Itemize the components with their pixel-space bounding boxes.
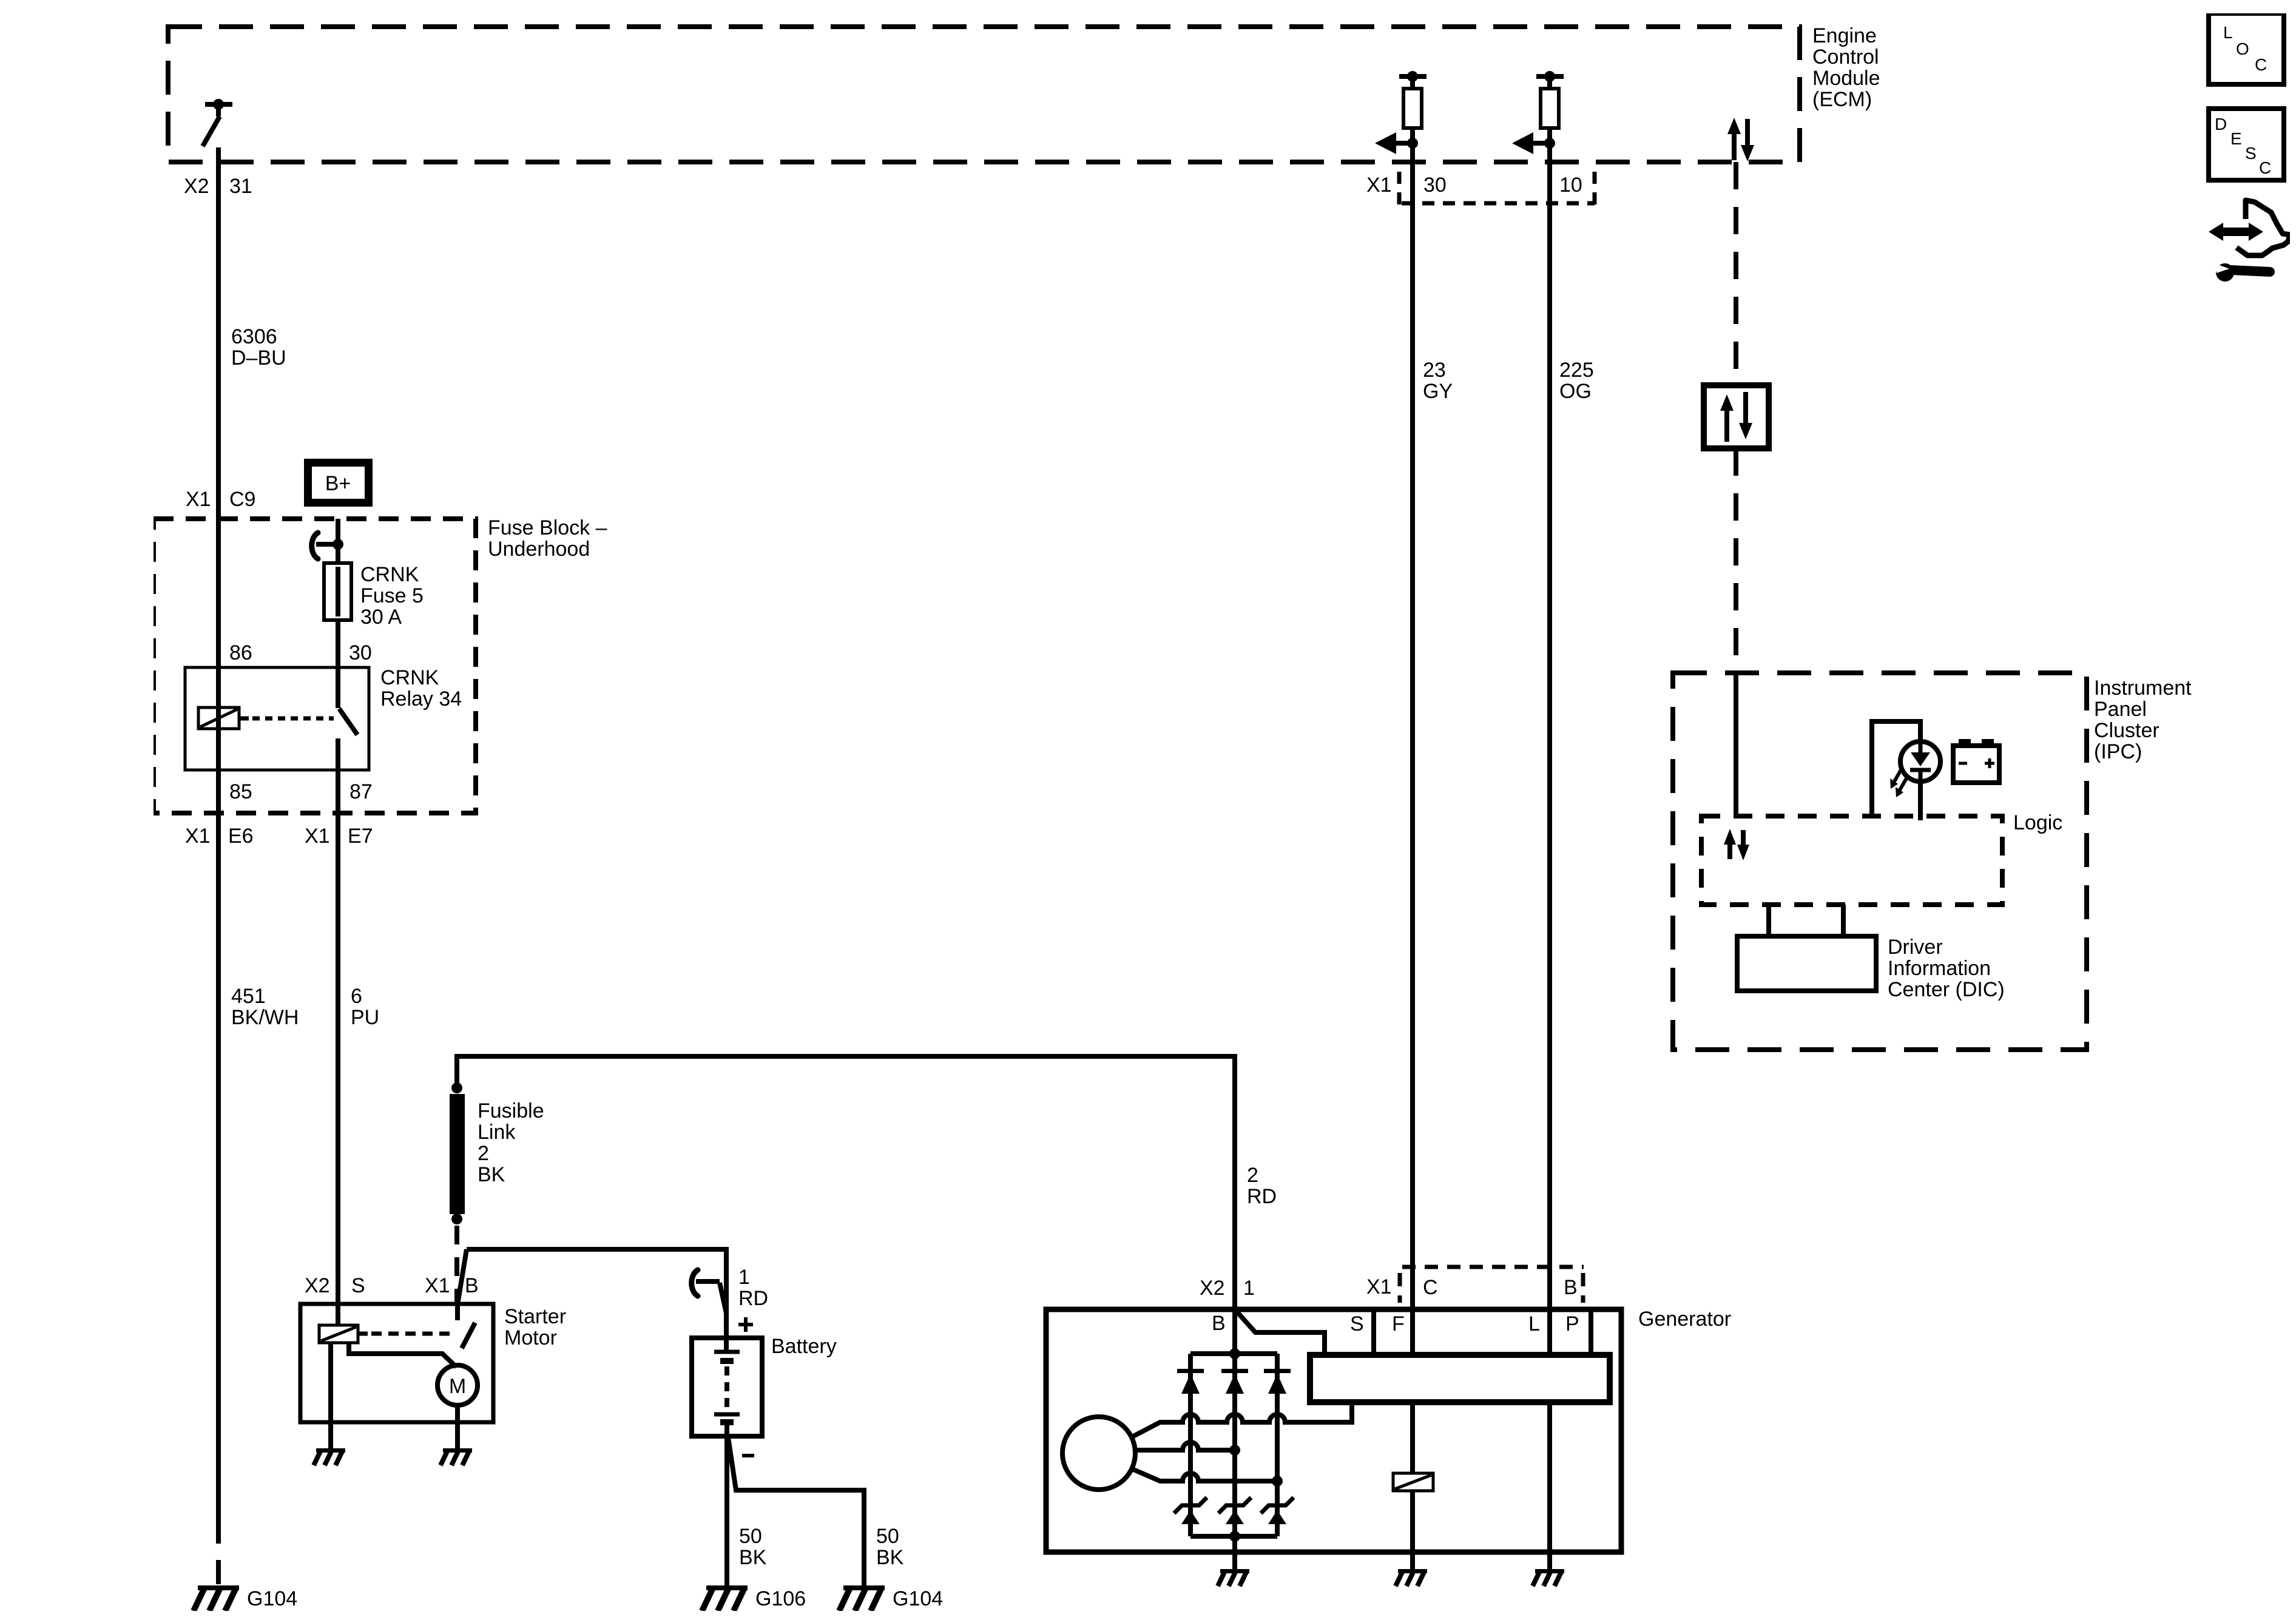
svg-text:S: S: [351, 1274, 365, 1297]
wire 6306 D-BU / 451 BK/WH (ECM X2-31 to G104): [216, 147, 221, 1518]
Starter Motor label: [504, 1305, 566, 1349]
Engine Control Module box: [168, 27, 1800, 162]
relay switch blade: [339, 709, 357, 735]
ECM X1 connector dashed box (pins 30 and 10): [1399, 172, 1595, 204]
svg-text:S: S: [2245, 144, 2257, 163]
svg-text:1: 1: [738, 1266, 750, 1289]
serial data two-way box: [1704, 385, 1769, 448]
svg-text:X1: X1: [305, 825, 330, 848]
svg-text:B: B: [465, 1274, 479, 1297]
upper diode 3: [1264, 1369, 1291, 1394]
diode column 1: [1188, 1354, 1193, 1536]
generator X1 connector dashed box: [1400, 1267, 1584, 1303]
diode column 3: [1275, 1354, 1280, 1536]
svg-text:G106: G106: [755, 1587, 806, 1610]
svg-text:RD: RD: [738, 1287, 768, 1310]
starter coil ground wire: [328, 1343, 333, 1448]
generator P pin stub: [1589, 1309, 1593, 1355]
svg-text:Fusible: Fusible: [478, 1099, 544, 1122]
IPC label: [2094, 677, 2192, 763]
svg-text:30: 30: [1423, 174, 1447, 197]
svg-text:D–BU: D–BU: [231, 346, 286, 370]
svg-text:E: E: [2230, 129, 2242, 148]
label 50 BK left: [739, 1525, 767, 1569]
svg-text:B: B: [1212, 1312, 1226, 1335]
LOC reference box: [2209, 13, 2284, 84]
svg-text:E6: E6: [228, 825, 254, 848]
wire 23 GY (pin 30 to generator C): [1410, 128, 1415, 1355]
generator pin labels X2 1: [1200, 1277, 1255, 1300]
ECM pin labels X1 30 10: [1366, 174, 1582, 197]
lower avalanche diode 2: [1218, 1497, 1251, 1524]
pin labels X1 E7: [305, 825, 373, 848]
svg-text:2: 2: [1247, 1164, 1258, 1187]
fusible link label: [478, 1099, 544, 1186]
rectifier bottom rail: [1190, 1534, 1277, 1539]
starter solenoid coil: [319, 1325, 358, 1343]
svg-text:Engine: Engine: [1812, 24, 1877, 47]
svg-text:Link: Link: [478, 1121, 516, 1144]
junction dot bottom rail: [1229, 1531, 1240, 1542]
svg-text:2: 2: [478, 1142, 489, 1165]
Driver Information Center box: [1737, 936, 1876, 991]
relay lower contact wire to pin 87: [336, 738, 340, 813]
svg-text:CRNK: CRNK: [360, 563, 419, 586]
starter switch blade: [462, 1323, 475, 1348]
upper diode 1: [1177, 1369, 1204, 1394]
svg-text:Module: Module: [1812, 67, 1880, 90]
svg-text:X1: X1: [186, 488, 211, 511]
charge indicator LED: [1872, 721, 1940, 820]
generator connector labels X1 C B: [1366, 1275, 1578, 1299]
svg-text:Panel: Panel: [2094, 698, 2147, 721]
svg-text:50: 50: [739, 1525, 762, 1548]
svg-text:M: M: [449, 1375, 466, 1398]
upper diode 2: [1221, 1369, 1248, 1394]
ECM serial data arrows: [1727, 118, 1754, 161]
svg-text:P: P: [1565, 1312, 1579, 1335]
svg-text:X1: X1: [1366, 174, 1392, 197]
svg-text:Logic: Logic: [2013, 811, 2062, 834]
ECM driver pin 10 (resistor + arrow): [1512, 71, 1564, 154]
battery internal cell symbol: [714, 1338, 740, 1436]
generator S pin stub: [1371, 1309, 1376, 1355]
ECM internal switch (crank request output): [203, 99, 232, 146]
svg-text:OG: OG: [1559, 380, 1592, 403]
svg-text:X2: X2: [305, 1274, 330, 1297]
rotor winding circle: [1062, 1417, 1135, 1490]
svg-text:6306: 6306: [231, 325, 277, 348]
svg-text:50: 50: [876, 1525, 899, 1548]
svg-text:1: 1: [1243, 1277, 1255, 1300]
IPC battery telltale icon: [1953, 739, 1999, 783]
ground below field coil: [1396, 1569, 1427, 1586]
battery negative branch to G104: [728, 1437, 864, 1585]
ground G104 left: [194, 1585, 239, 1611]
CRNK Fuse 5: [324, 563, 351, 620]
svg-text:C: C: [2255, 55, 2267, 74]
wire 2 RD continuation into rectifier: [1232, 1309, 1237, 1354]
svg-text:S: S: [1350, 1312, 1364, 1335]
starter contact wire to motor: [349, 1343, 456, 1367]
fusible link 2 BK: [450, 1082, 465, 1224]
starter B pin wire: [455, 1302, 460, 1320]
Fuse Block Underhood dashed box: [154, 519, 476, 813]
svg-text:225: 225: [1559, 359, 1594, 382]
B+ terminal box: [308, 463, 369, 503]
ground G104 right: [839, 1585, 885, 1611]
label 451 BK/WH: [231, 985, 299, 1029]
label 23 GY: [1423, 359, 1453, 403]
svg-text:Center (DIC): Center (DIC): [1888, 978, 2005, 1001]
label 1 RD: [738, 1266, 768, 1310]
stator phase 3 winding: [1132, 1469, 1277, 1481]
dashed wire fusible link to starter B: [454, 1226, 459, 1302]
svg-text:86: 86: [229, 641, 252, 664]
svg-text:Generator: Generator: [1638, 1308, 1731, 1331]
wire fuse to relay pin 30: [336, 620, 340, 708]
serial data wire inside IPC: [1734, 673, 1738, 816]
ground below starter coil: [314, 1448, 345, 1465]
starter S wire into solenoid coil: [336, 1304, 340, 1325]
svg-text:Information: Information: [1888, 957, 1991, 980]
dashed wire segment to ground: [216, 1518, 221, 1584]
Logic dashed box: [1701, 816, 2002, 905]
starter motor M: [437, 1365, 478, 1405]
relay actuation dashed link: [239, 717, 249, 721]
battery negative wire to G106: [724, 1436, 729, 1585]
svg-text:C: C: [1423, 1276, 1438, 1299]
svg-text:Motor: Motor: [504, 1326, 557, 1349]
svg-text:C9: C9: [229, 488, 255, 511]
CRNK Relay label: [380, 666, 462, 711]
wire 6 PU (relay 87 to starter S): [336, 813, 340, 1325]
serial data dashed wire upper: [1734, 162, 1738, 385]
DIC wire right: [1841, 905, 1846, 936]
generator L/P wire to ground: [1547, 1402, 1552, 1569]
relay pin labels 85 87: [229, 780, 373, 803]
svg-text:L: L: [1528, 1312, 1540, 1335]
CRNK Relay 34 box: [185, 667, 369, 770]
label 225 OG: [1559, 359, 1594, 403]
logic serial arrows: [1724, 829, 1749, 860]
svg-text:RD: RD: [1247, 1185, 1277, 1208]
ground below rectifier: [1218, 1569, 1249, 1586]
Starter Motor box: [300, 1304, 493, 1422]
wire from B+ into fuse block: [336, 519, 340, 563]
junction dot phase 2: [1229, 1445, 1240, 1456]
diagonal joining starter B pin: [458, 1249, 467, 1305]
lower avalanche diode 1: [1174, 1497, 1207, 1524]
svg-text:BK: BK: [478, 1163, 505, 1186]
pin labels X1 E6: [185, 825, 254, 848]
svg-text:X1: X1: [425, 1274, 450, 1297]
svg-text:Battery: Battery: [771, 1335, 837, 1358]
label 6306 D-BU: [231, 325, 286, 370]
Fuse Block label: [488, 516, 607, 561]
ground G106: [702, 1585, 748, 1611]
serial data dashed wire lower: [1734, 448, 1738, 673]
svg-text:O: O: [2236, 39, 2249, 58]
svg-text:X2: X2: [184, 175, 209, 198]
svg-text:(ECM): (ECM): [1812, 88, 1872, 111]
svg-text:BK: BK: [876, 1546, 904, 1569]
lower avalanche diode 3: [1261, 1497, 1294, 1524]
wire 225 OG (pin 10 to generator B): [1547, 128, 1552, 1355]
relay coil: [198, 707, 239, 729]
svg-text:(IPC): (IPC): [2094, 740, 2142, 763]
pin label X1 C9: [186, 488, 255, 511]
rectifier top rail: [1190, 1351, 1277, 1356]
field coil on C wire: [1393, 1402, 1433, 1569]
ECM label: [1812, 24, 1880, 111]
battery positive feed wire: [467, 1249, 726, 1350]
label 50 BK right: [876, 1525, 904, 1569]
Battery box: [692, 1338, 762, 1436]
svg-text:31: 31: [229, 175, 252, 198]
svg-text:G104: G104: [247, 1587, 297, 1610]
svg-text:Instrument: Instrument: [2094, 677, 2192, 700]
junction dot B rail: [1229, 1348, 1240, 1359]
main feed wire from fusible link to generator B: [457, 1056, 1235, 1354]
ECM pin X2/31 labels: [184, 175, 252, 198]
stator phase 2 winding: [1135, 1442, 1235, 1450]
svg-text:Control: Control: [1812, 46, 1879, 69]
DIC label: [1888, 936, 2005, 1001]
svg-text:B: B: [1564, 1276, 1578, 1299]
svg-text:30 A: 30 A: [360, 606, 402, 629]
svg-text:6: 6: [351, 985, 362, 1008]
Instrument Panel Cluster dashed box: [1673, 673, 2087, 1050]
ECM driver pin 30 (resistor + arrow): [1375, 71, 1427, 154]
svg-text:C: C: [2259, 158, 2271, 177]
svg-text:E7: E7: [348, 825, 373, 848]
svg-text:X1: X1: [1366, 1275, 1392, 1298]
starter motor ground wire: [455, 1405, 460, 1448]
svg-text:BK: BK: [739, 1546, 767, 1569]
diagnostic icon double arrow: [2209, 223, 2263, 241]
starter actuation dashed link: [358, 1332, 368, 1336]
svg-text:87: 87: [349, 780, 373, 803]
svg-text:451: 451: [231, 985, 266, 1008]
diagnostic icon wrench: [2215, 263, 2270, 282]
svg-text:F: F: [1392, 1312, 1405, 1335]
relay pin labels 86 30: [229, 641, 372, 664]
DIC wire left: [1766, 905, 1771, 936]
junction dot phase 3: [1272, 1476, 1283, 1487]
diagnostic icon outline: [2237, 200, 2290, 255]
battery hook splice: [692, 1270, 726, 1313]
CRNK Fuse label: [360, 563, 424, 629]
label 2 RD: [1247, 1164, 1277, 1208]
stator phase 1 winding to regulator: [1132, 1402, 1352, 1437]
label 6 PU: [351, 985, 379, 1029]
ground below starter motor: [441, 1448, 472, 1465]
svg-text:Fuse 5: Fuse 5: [360, 584, 424, 607]
rectifier ground wire: [1232, 1536, 1237, 1569]
DESC reference box: [2209, 109, 2284, 180]
svg-text:10: 10: [1559, 174, 1582, 197]
generator B output jog to regulator: [1235, 1309, 1325, 1355]
battery plus sign: [738, 1317, 753, 1332]
svg-text:G104: G104: [893, 1587, 943, 1610]
svg-text:Starter: Starter: [504, 1305, 566, 1328]
svg-text:B+: B+: [325, 472, 351, 495]
svg-text:Driver: Driver: [1888, 936, 1943, 959]
svg-text:L: L: [2223, 23, 2233, 42]
voltage regulator block: [1310, 1355, 1610, 1402]
svg-text:85: 85: [229, 780, 252, 803]
battery feed hook splice at B+ wire: [312, 533, 343, 559]
generator internal pin letters B S F L P: [1212, 1312, 1579, 1335]
svg-text:PU: PU: [351, 1006, 379, 1029]
Generator box: [1046, 1309, 1621, 1552]
svg-text:Fuse Block –: Fuse Block –: [488, 516, 607, 539]
svg-text:Underhood: Underhood: [488, 538, 590, 561]
svg-text:30: 30: [349, 641, 372, 664]
LED emission arrows: [1890, 769, 1907, 797]
ground below generator P: [1533, 1569, 1564, 1586]
svg-text:CRNK: CRNK: [380, 666, 439, 689]
svg-text:GY: GY: [1423, 380, 1453, 403]
svg-text:D: D: [2215, 115, 2227, 133]
diode column 2: [1232, 1354, 1237, 1536]
battery minus sign: [742, 1454, 754, 1457]
svg-text:Cluster: Cluster: [2094, 719, 2159, 742]
svg-text:X2: X2: [1200, 1277, 1225, 1300]
starter pin labels X2 S X1 B: [305, 1274, 479, 1297]
svg-text:23: 23: [1423, 359, 1446, 382]
svg-text:BK/WH: BK/WH: [231, 1006, 299, 1029]
svg-text:Relay 34: Relay 34: [380, 687, 462, 711]
svg-text:X1: X1: [185, 825, 211, 848]
